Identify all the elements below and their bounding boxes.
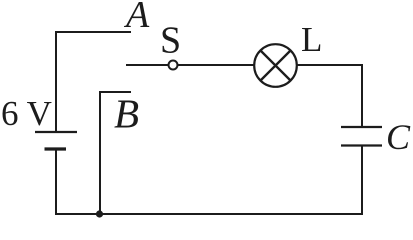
battery value label 6 V [1, 94, 52, 133]
svg-text:6 V: 6 V [1, 94, 52, 133]
capacitor C top plate [341, 126, 382, 128]
node B label [114, 91, 139, 137]
svg-text:C: C [386, 117, 411, 157]
wire: right vertical down to capacitor top plate [361, 64, 363, 127]
battery 6V positive plate (long) [35, 131, 77, 133]
wire: battery negative terminal down to bottom-left corner [55, 148, 57, 215]
battery 6V negative plate (short, thick) [45, 147, 67, 150]
capacitor C bottom plate [341, 144, 382, 146]
wire: terminal B vertical run down to bottom junction [99, 91, 101, 215]
svg-text:L: L [301, 20, 322, 59]
svg-text:S: S [160, 20, 181, 62]
svg-text:A: A [123, 0, 150, 36]
lamp L label [301, 20, 322, 59]
capacitor C label [386, 117, 411, 157]
wire: switch branch horizontal run (left lead) [126, 64, 255, 66]
wire: lamp to top-right corner [296, 64, 363, 66]
wire: top horizontal run ending at terminal A [55, 31, 131, 33]
wire: terminal B horizontal stub [99, 91, 131, 93]
node A label [123, 0, 150, 36]
switch S label [160, 20, 181, 62]
junction dot at bottom node [96, 210, 103, 217]
wire: capacitor bottom plate down to bottom-right corner [361, 146, 363, 215]
svg-text:B: B [114, 91, 139, 137]
wire: battery positive terminal up to top-left corner [55, 31, 57, 132]
wire: bottom horizontal return run [55, 213, 363, 215]
switch S (open-circle contact) [169, 61, 178, 70]
lamp L (circle with X) [254, 44, 297, 87]
